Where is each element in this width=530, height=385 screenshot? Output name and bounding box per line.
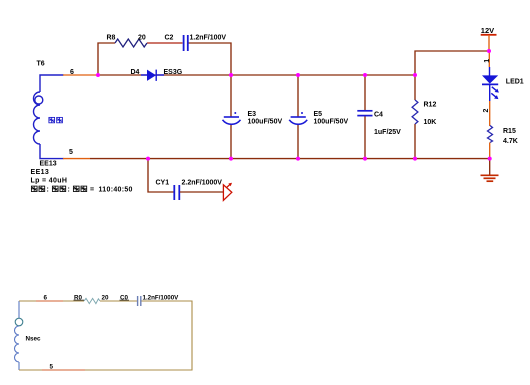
- wire C4 column: [364, 75, 366, 159]
- wire bottom rail y=158: [90, 158, 490, 160]
- ghost capacitor C0: [138, 296, 141, 306]
- svg-text:EE13: EE13: [40, 160, 57, 167]
- resistor R8: [115, 39, 147, 47]
- capacitor C4: [357, 111, 372, 116]
- svg-text:D4: D4: [131, 69, 140, 76]
- junction node (231,75): [229, 73, 233, 77]
- annotation 初级:次级:反馈 = 110:40:50: [31, 186, 132, 193]
- wire 12V stub (orange): [488, 35, 490, 51]
- svg-text:E3: E3: [248, 111, 257, 118]
- wire LED cathode to R15 (orange): [489, 101, 491, 126]
- junction node (298,75): [296, 73, 300, 77]
- capacitor E3 (polarized): [223, 112, 241, 124]
- svg-text:4.7K: 4.7K: [503, 138, 518, 145]
- wire R15 to rail (orange): [489, 143, 491, 159]
- diode D4: [141, 70, 164, 81]
- svg-text:R15: R15: [503, 128, 516, 135]
- junction node (231,158): [229, 157, 233, 161]
- ghost wire R0 to C0: [100, 300, 137, 302]
- ghost wire C0 to right side: [19, 301, 192, 370]
- junction node (415,158): [413, 157, 417, 161]
- svg-text:100uF/50V: 100uF/50V: [314, 119, 349, 126]
- svg-text:Nsec: Nsec: [26, 335, 42, 342]
- capacitor C2: [184, 35, 188, 51]
- svg-text:CY1: CY1: [156, 179, 170, 186]
- junction node (298,158): [296, 157, 300, 161]
- wire CY1 branch: [148, 159, 174, 192]
- wire R8 to C2: [147, 42, 183, 44]
- svg-text::: :: [68, 187, 70, 194]
- wire main top net y=75: [98, 74, 415, 76]
- capacitor CY1: [174, 185, 179, 200]
- svg-text:1: 1: [484, 59, 491, 63]
- wire ground stub: [489, 159, 491, 175]
- svg-text:5: 5: [69, 149, 73, 156]
- wire R12 column: [414, 75, 416, 159]
- ghost wire top: [19, 300, 84, 302]
- wire LED anode stub (orange): [488, 51, 490, 67]
- junction node (489,51): [487, 49, 491, 53]
- svg-text:2.2nF/1000V: 2.2nF/1000V: [182, 179, 223, 186]
- wire snubber left riser: [98, 43, 115, 75]
- svg-text:20: 20: [138, 34, 146, 41]
- svg-text:R12: R12: [424, 101, 437, 108]
- svg-text:EE13: EE13: [31, 169, 50, 176]
- wire E5 column: [297, 75, 299, 159]
- ground symbol: [481, 175, 499, 181]
- wire C2 to right riser down to node: [189, 43, 232, 75]
- ghost wire top orange segment: [36, 300, 63, 302]
- junction node (365,158): [363, 157, 367, 161]
- ghost resistor R0: [84, 298, 100, 303]
- svg-text:10K: 10K: [424, 119, 437, 126]
- wire E3 column: [230, 75, 232, 159]
- junction node (98,75): [96, 73, 100, 77]
- ghost wire bottom orange segment: [42, 369, 85, 371]
- svg-text:6: 6: [44, 294, 48, 301]
- svg-text:2: 2: [483, 109, 490, 113]
- resistor R12: [412, 100, 418, 124]
- svg-text:20: 20: [102, 294, 110, 301]
- svg-text:Lp = 40uH: Lp = 40uH: [31, 178, 68, 185]
- svg-text::: :: [47, 187, 49, 194]
- wire CY1 to off-page: [180, 191, 224, 193]
- svg-text:C4: C4: [374, 111, 383, 118]
- svg-text:100uF/50V: 100uF/50V: [248, 119, 283, 126]
- svg-text:R8: R8: [107, 34, 116, 41]
- svg-text:1.2nF/1000V: 1.2nF/1000V: [143, 295, 180, 302]
- power symbol 12V: [481, 34, 497, 36]
- wire pin 6 stub (orange): [63, 74, 98, 76]
- transformer T6 secondary winding: [34, 75, 64, 159]
- wire pin 5 stub (orange): [63, 158, 90, 160]
- off-page connector (red arrow): [223, 183, 232, 201]
- svg-text:C2: C2: [165, 34, 174, 41]
- resistor R15: [488, 126, 493, 143]
- junction node (148,158): [146, 157, 150, 161]
- svg-text:1.2nF/100V: 1.2nF/100V: [190, 34, 227, 41]
- svg-text:5: 5: [50, 364, 54, 371]
- svg-text:=: =: [90, 187, 94, 194]
- svg-text:12V: 12V: [481, 26, 494, 35]
- svg-text:T6: T6: [37, 61, 45, 68]
- svg-text:1uF/25V: 1uF/25V: [374, 129, 401, 136]
- junction node (489.7,158): [488, 157, 492, 161]
- wire top-right riser to LED row: [415, 51, 489, 75]
- svg-text:110:40:50: 110:40:50: [99, 187, 133, 194]
- ghost fragment: transformer Nsec winding: [15, 301, 23, 370]
- label winding 次级 (blue): [49, 117, 63, 122]
- svg-text:LED1: LED1: [506, 78, 524, 85]
- junction node (365,75): [363, 73, 367, 77]
- svg-text:ES3G: ES3G: [164, 69, 183, 76]
- junction node (415,75): [413, 73, 417, 77]
- capacitor E5 (polarized): [289, 112, 307, 124]
- LED LED1: [482, 67, 499, 101]
- svg-text:E5: E5: [314, 111, 323, 118]
